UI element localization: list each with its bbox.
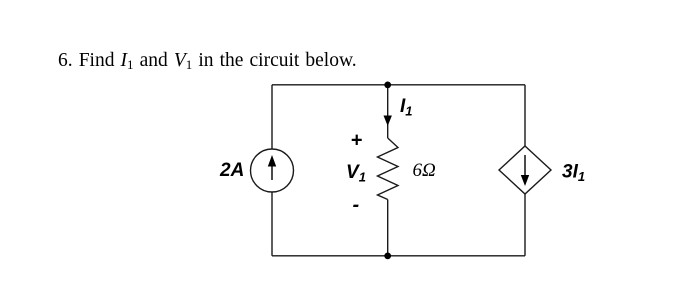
svg-text:2A: 2A (219, 160, 244, 181)
svg-text:-: - (353, 194, 360, 216)
svg-text:3I1: 3I1 (562, 162, 585, 185)
svg-text:V1: V1 (346, 162, 366, 185)
svg-text:+: + (351, 130, 363, 152)
svg-text:6. Find I1 and V1 in the circu: 6. Find I1 and V1 in the circuit below. (58, 50, 357, 72)
svg-text:I1: I1 (400, 96, 413, 119)
svg-text:6Ω: 6Ω (413, 160, 437, 181)
